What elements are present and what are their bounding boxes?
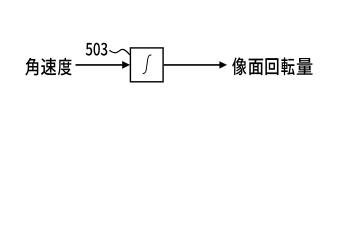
- leader squiggle from 503 to block corner: [109, 49, 129, 55]
- integral symbol inside block: [143, 55, 152, 74]
- wire: output signal line: [164, 64, 221, 66]
- output arrowhead: [219, 61, 227, 68]
- input arrowhead into block: [122, 61, 130, 69]
- output label "像面回転量" (image-plane rotation amount): [232, 57, 312, 75]
- integrator block 503 (square box): [130, 48, 163, 82]
- input label "角速度" (angular velocity): [25, 58, 71, 76]
- reference numeral 503: [86, 43, 108, 56]
- wire: input signal line: [76, 64, 124, 66]
